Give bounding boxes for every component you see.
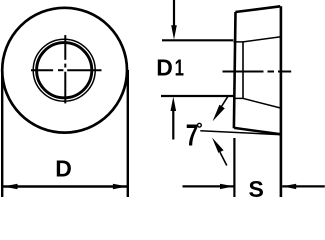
svg-text:S: S xyxy=(249,176,264,197)
svg-text:D: D xyxy=(55,155,72,181)
svg-text:1: 1 xyxy=(175,56,184,81)
svg-text:D: D xyxy=(156,55,173,81)
svg-text:7: 7 xyxy=(186,118,199,152)
